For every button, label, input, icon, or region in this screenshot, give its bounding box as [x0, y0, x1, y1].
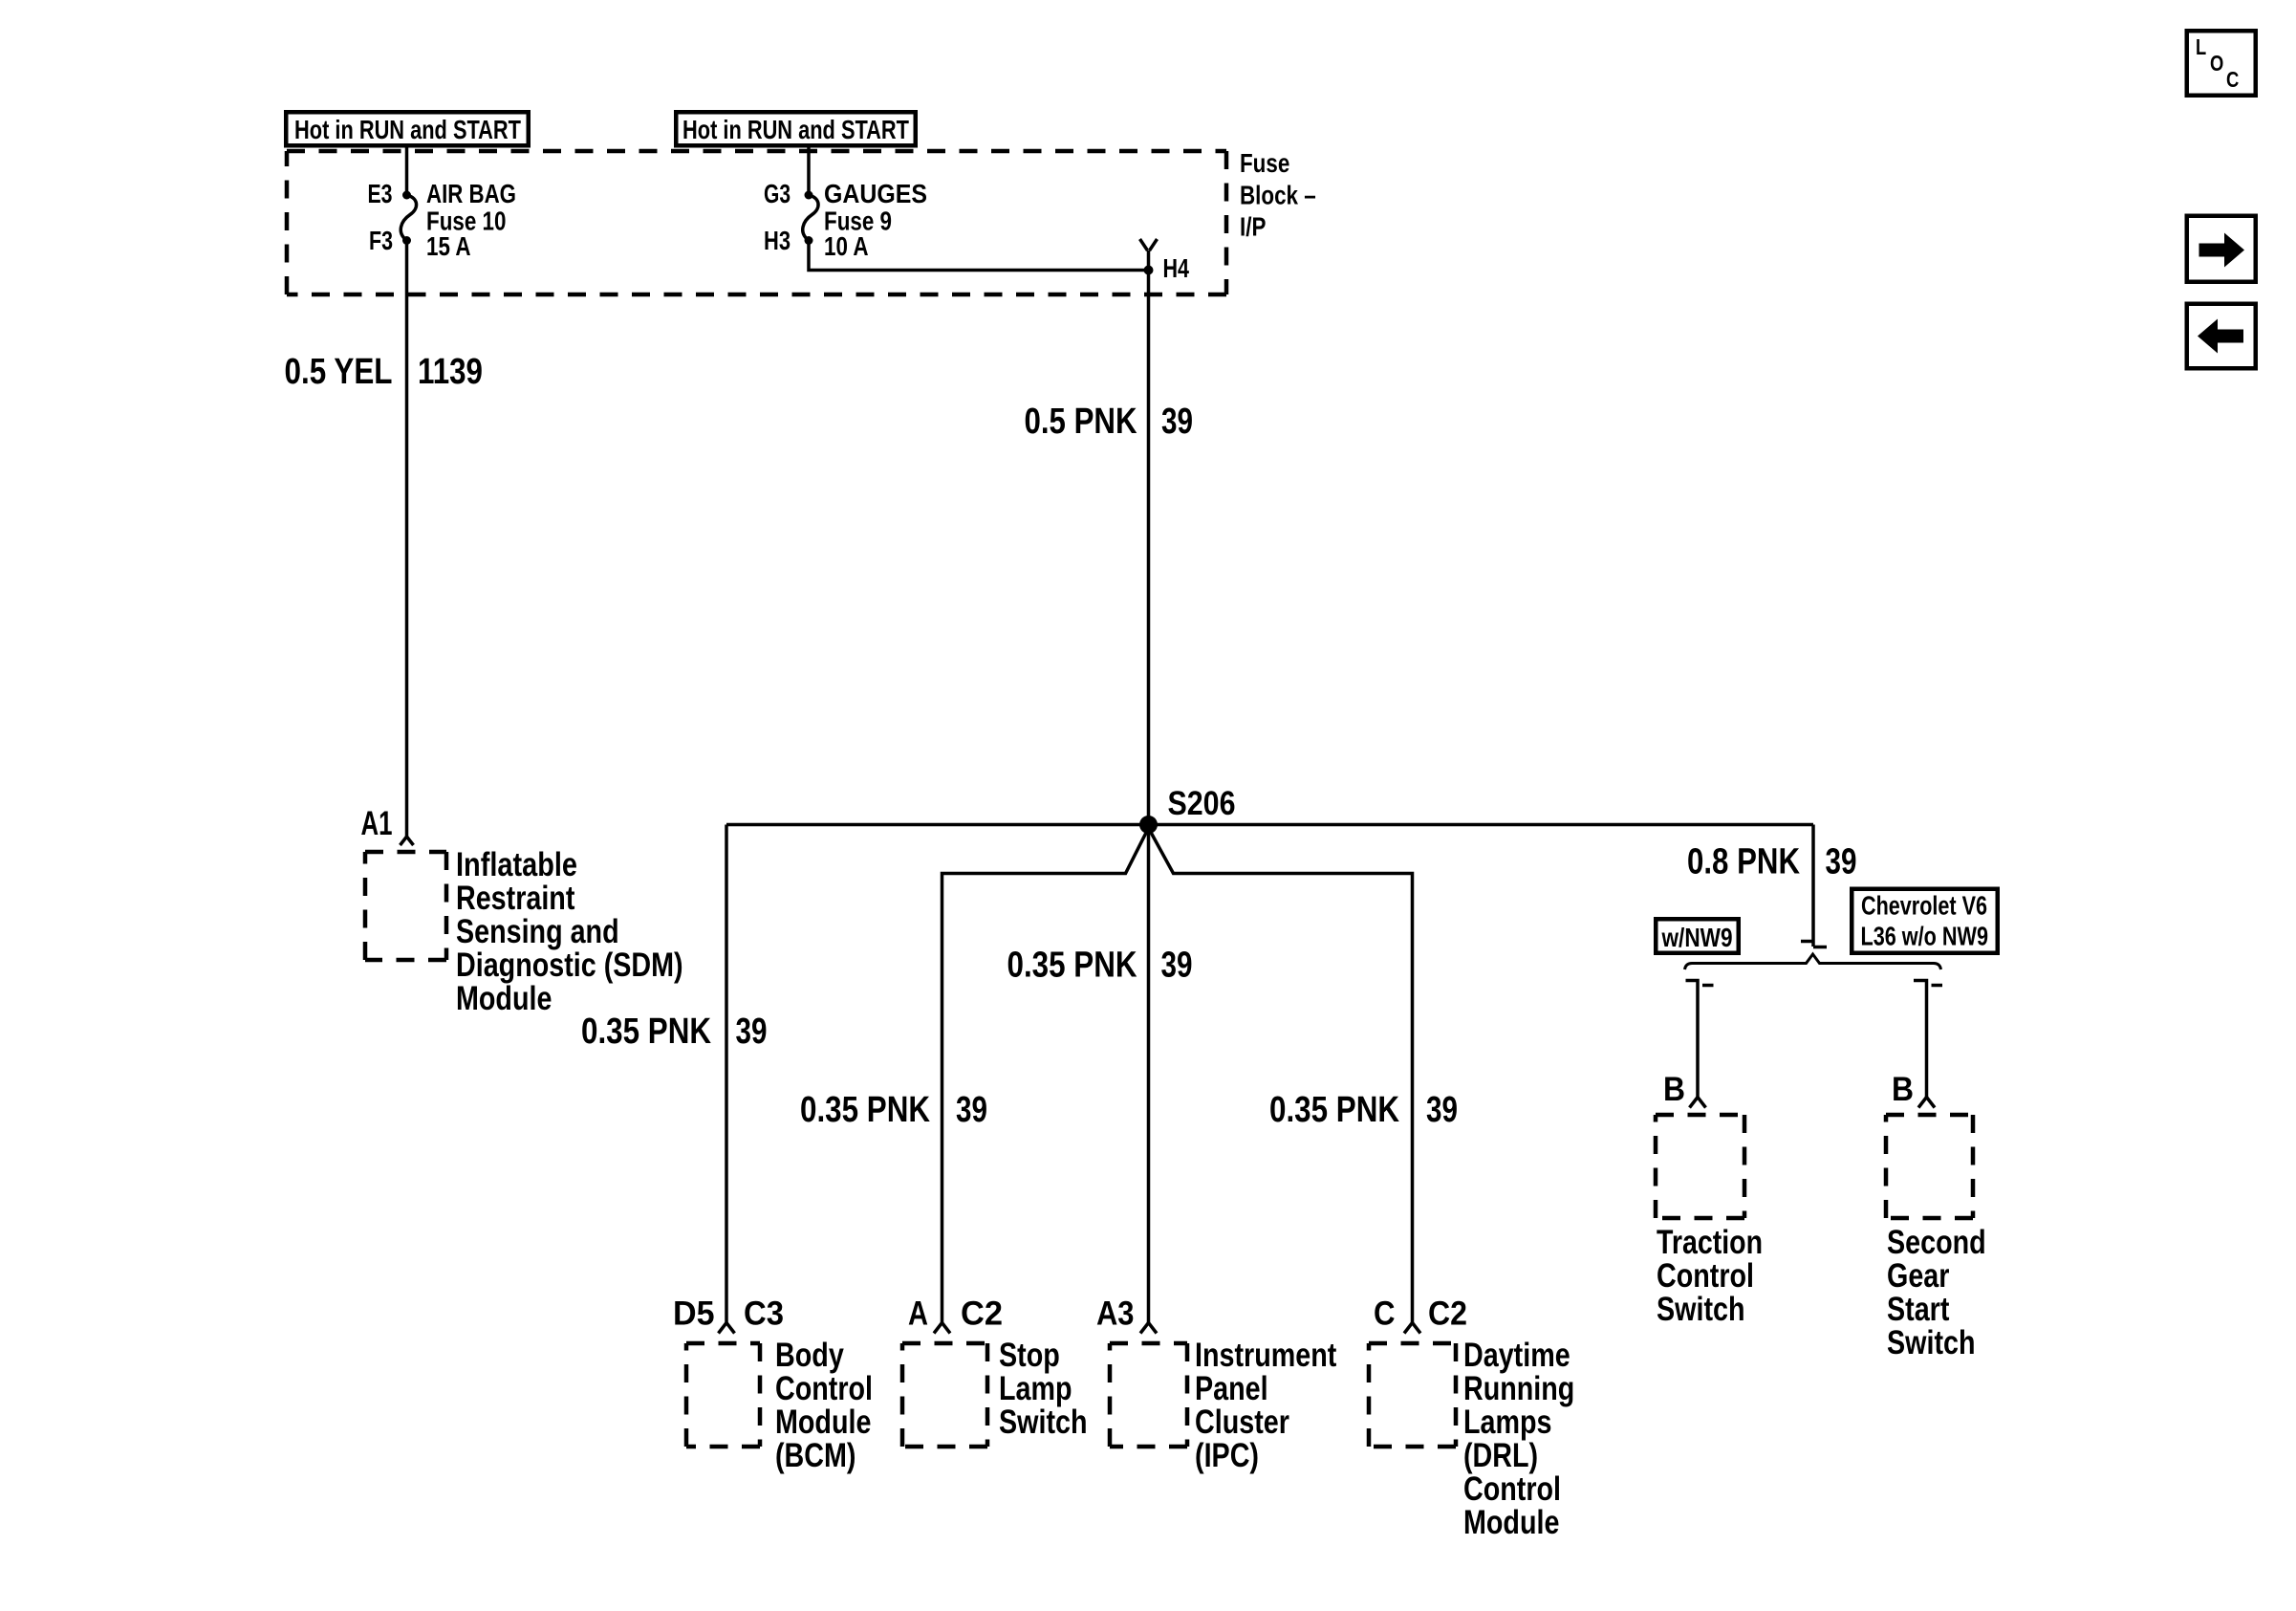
svg-text:Hot in RUN and START: Hot in RUN and START — [682, 115, 909, 144]
svg-text:C2: C2 — [1428, 1295, 1467, 1333]
svg-text:O: O — [2210, 51, 2223, 76]
svg-text:Hot in RUN and START: Hot in RUN and START — [294, 115, 521, 144]
svg-text:39: 39 — [1426, 1090, 1458, 1130]
svg-text:B: B — [1663, 1071, 1685, 1108]
svg-text:Fuse: Fuse — [1240, 148, 1289, 178]
svg-text:0.5 YEL: 0.5 YEL — [285, 352, 393, 392]
svg-text:0.35 PNK: 0.35 PNK — [800, 1090, 930, 1130]
svg-text:Chevrolet V6: Chevrolet V6 — [1861, 891, 1987, 921]
svg-text:Block –: Block – — [1240, 181, 1316, 210]
svg-text:D5: D5 — [673, 1295, 715, 1333]
svg-text:C: C — [1374, 1295, 1396, 1333]
svg-text:C: C — [2226, 67, 2239, 92]
svg-text:H4: H4 — [1163, 253, 1190, 283]
svg-text:Control: Control — [1657, 1257, 1754, 1295]
svg-text:S206: S206 — [1168, 785, 1236, 822]
svg-text:GAUGES: GAUGES — [824, 179, 927, 208]
svg-text:39: 39 — [1161, 946, 1193, 986]
svg-text:Lamp: Lamp — [999, 1370, 1072, 1407]
svg-text:L36 w/o NW9: L36 w/o NW9 — [1861, 922, 1989, 951]
svg-text:Restraint: Restraint — [456, 880, 575, 917]
svg-text:Module: Module — [456, 980, 552, 1017]
svg-text:A1: A1 — [361, 805, 393, 842]
svg-text:1139: 1139 — [418, 352, 483, 392]
svg-text:I/P: I/P — [1240, 212, 1266, 242]
svg-text:H3: H3 — [764, 226, 791, 255]
svg-text:Running: Running — [1463, 1370, 1574, 1407]
svg-text:0.35 PNK: 0.35 PNK — [1007, 946, 1137, 986]
svg-text:Inflatable: Inflatable — [456, 846, 577, 883]
svg-text:Traction: Traction — [1657, 1224, 1763, 1261]
svg-text:(IPC): (IPC) — [1195, 1437, 1259, 1474]
svg-text:C3: C3 — [744, 1295, 784, 1333]
svg-text:Daytime: Daytime — [1463, 1337, 1570, 1374]
svg-text:39: 39 — [1161, 402, 1193, 442]
svg-text:15 A: 15 A — [426, 231, 471, 261]
svg-text:Control: Control — [1463, 1470, 1561, 1508]
svg-text:Gear: Gear — [1887, 1257, 1950, 1295]
svg-text:Panel: Panel — [1195, 1370, 1268, 1407]
svg-text:Sensing and: Sensing and — [456, 913, 619, 950]
svg-text:0.8 PNK: 0.8 PNK — [1687, 842, 1800, 882]
svg-text:F3: F3 — [369, 226, 393, 255]
svg-text:0.35 PNK: 0.35 PNK — [1269, 1090, 1399, 1130]
svg-text:Control: Control — [775, 1370, 873, 1407]
svg-text:39: 39 — [1826, 842, 1857, 882]
svg-text:Switch: Switch — [1887, 1324, 1976, 1361]
svg-text:Start: Start — [1887, 1291, 1950, 1328]
svg-text:w/NW9: w/NW9 — [1661, 923, 1733, 952]
svg-text:Body: Body — [775, 1337, 844, 1374]
svg-text:(BCM): (BCM) — [775, 1437, 856, 1474]
svg-text:(DRL): (DRL) — [1463, 1437, 1538, 1474]
svg-text:Stop: Stop — [999, 1337, 1060, 1374]
svg-text:39: 39 — [956, 1090, 987, 1130]
svg-text:B: B — [1892, 1071, 1914, 1108]
svg-text:Switch: Switch — [1657, 1291, 1745, 1328]
svg-text:10 A: 10 A — [824, 231, 869, 261]
svg-text:0.5 PNK: 0.5 PNK — [1025, 402, 1137, 442]
svg-text:39: 39 — [736, 1012, 768, 1052]
svg-text:L: L — [2196, 34, 2206, 59]
svg-text:Diagnostic (SDM): Diagnostic (SDM) — [456, 947, 683, 984]
svg-text:Switch: Switch — [999, 1404, 1088, 1441]
svg-text:A3: A3 — [1096, 1295, 1135, 1333]
svg-text:Second: Second — [1887, 1224, 1986, 1261]
svg-text:AIR BAG: AIR BAG — [426, 179, 516, 208]
svg-text:Lamps: Lamps — [1463, 1404, 1552, 1441]
svg-text:A: A — [908, 1295, 928, 1333]
svg-text:C2: C2 — [961, 1295, 1003, 1333]
svg-text:0.35 PNK: 0.35 PNK — [581, 1012, 711, 1052]
svg-text:Cluster: Cluster — [1195, 1404, 1289, 1441]
svg-text:Module: Module — [1463, 1504, 1559, 1541]
svg-text:Instrument: Instrument — [1195, 1337, 1337, 1374]
svg-text:E3: E3 — [368, 179, 393, 208]
svg-text:G3: G3 — [764, 179, 791, 208]
svg-text:Module: Module — [775, 1404, 871, 1441]
